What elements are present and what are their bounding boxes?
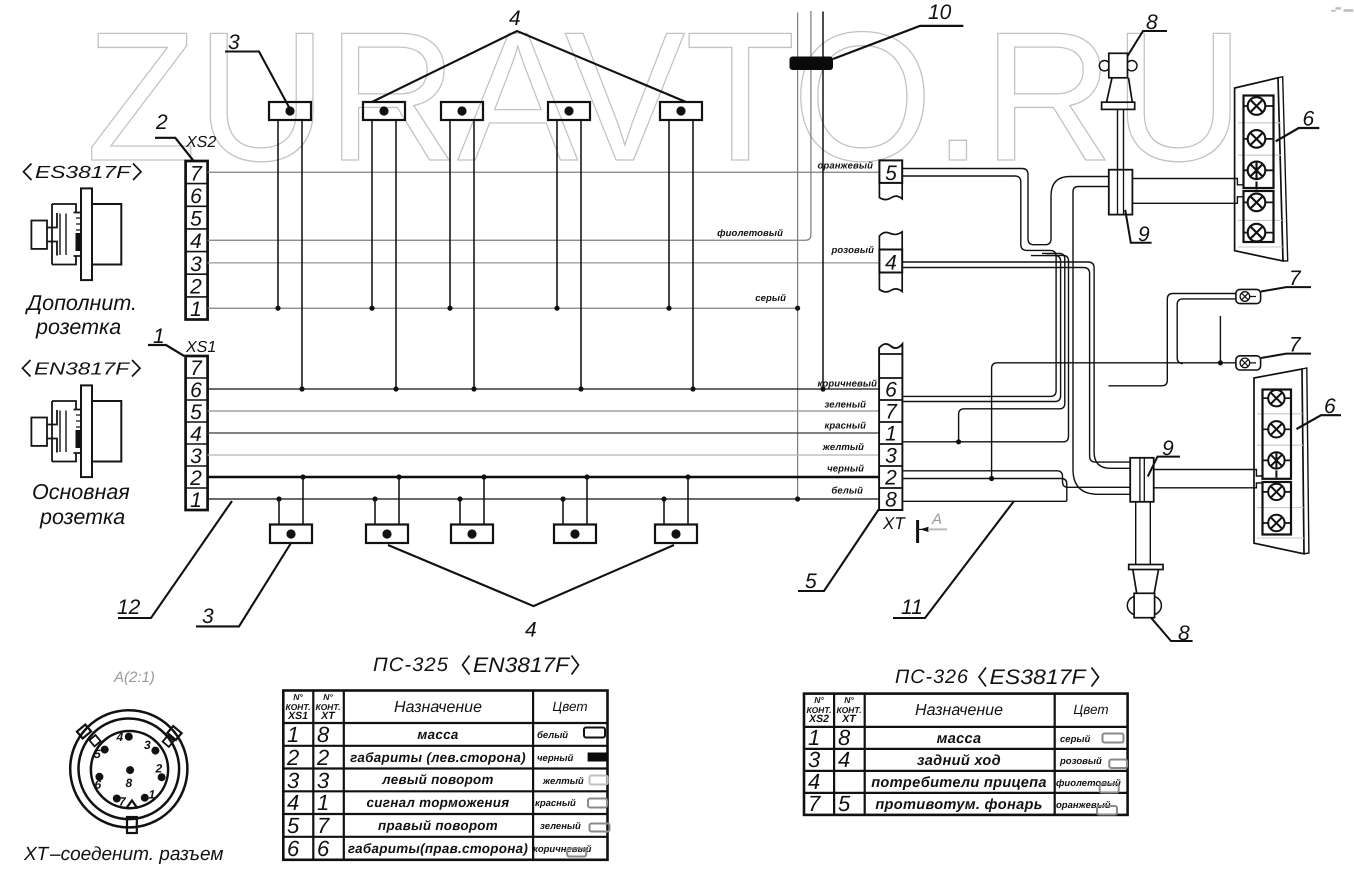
svg-text:левый поворот: левый поворот [381, 772, 493, 787]
svg-text:2: 2 [884, 467, 897, 490]
svg-text:Дополнит.: Дополнит. [25, 291, 137, 315]
leader 10 [833, 26, 963, 59]
break flag above [879, 232, 902, 250]
svg-text:5: 5 [94, 747, 101, 761]
connector 9 (bottom) [1130, 458, 1154, 502]
svg-text:белый: белый [537, 730, 568, 741]
wire stop-lamp ext up bundle [902, 255, 1068, 441]
svg-text:XT: XT [23, 844, 50, 865]
svg-text:XS1: XS1 [287, 710, 308, 722]
svg-text:коричневый: коричневый [818, 379, 878, 390]
watermark ZURAVTO.RU [86, 0, 1244, 199]
connector XT pin4 box [879, 232, 902, 292]
svg-text:2: 2 [189, 276, 202, 299]
svg-text:1: 1 [190, 489, 202, 512]
wire connector9 to top lamp cluster lower [1132, 197, 1243, 204]
svg-text:4: 4 [525, 619, 537, 642]
wire XS1-3 yellow row [208, 454, 880, 456]
wire [459, 499, 461, 525]
svg-text:противотум. фонарь: противотум. фонарь [875, 797, 1042, 813]
socket label (EN3817F) [23, 359, 141, 379]
wire ext to lower cable a [902, 471, 1130, 488]
shell tab upper-right [167, 726, 181, 740]
svg-text:желтый: желтый [822, 442, 864, 453]
svg-text:5: 5 [838, 791, 851, 816]
svg-text:А(2:1): А(2:1) [113, 669, 155, 686]
table ПС-325 [283, 691, 607, 860]
svg-text:9: 9 [1138, 223, 1150, 246]
wire XT4 pipe upper [903, 262, 1131, 468]
wire [449, 120, 451, 308]
svg-text:ES3817F: ES3817F [35, 162, 132, 182]
wire connector9 to lower cable [1073, 187, 1130, 495]
table ПС-325 title [373, 654, 579, 677]
svg-text:4: 4 [287, 790, 299, 815]
connector face [91, 731, 168, 808]
svg-text:серый: серый [1060, 734, 1090, 745]
wire [301, 120, 303, 389]
leader 9 (top) [1125, 210, 1151, 243]
face notch [126, 801, 138, 809]
wire [556, 120, 558, 308]
svg-text:5: 5 [805, 570, 817, 593]
junction dots [795, 306, 826, 502]
svg-text:N°: N° [844, 695, 854, 705]
svg-text:12: 12 [117, 596, 141, 619]
svg-text:2: 2 [155, 762, 163, 776]
svg-text:3: 3 [885, 445, 897, 468]
svg-text:Цвет: Цвет [1073, 702, 1108, 717]
svg-text:XT: XT [841, 713, 857, 725]
connector XT main block [879, 344, 902, 512]
lamp block B5 [655, 474, 697, 543]
svg-text:5: 5 [190, 401, 202, 424]
lamp 3 fog [1263, 452, 1292, 477]
harness wires right of XT [902, 169, 1262, 502]
lamp block B2 [366, 474, 408, 543]
svg-text:6: 6 [1324, 395, 1336, 418]
wire XS1-5 green row [208, 410, 880, 412]
section mark A [918, 511, 947, 543]
wire XT5 to connector 9 (S-bend) [903, 169, 1109, 245]
plug 8 (top) [1099, 53, 1137, 169]
wire upper connector 7 line a [1109, 294, 1236, 386]
svg-text:9: 9 [1162, 437, 1174, 460]
lamp block B4 [554, 474, 596, 543]
svg-text:потребители прицепа: потребители прицепа [871, 775, 1047, 791]
shell tab bottom [127, 817, 137, 833]
wire [371, 120, 373, 308]
wire [692, 120, 694, 389]
socket EN3817F (lower left) symbol [31, 385, 121, 477]
svg-text:6: 6 [1303, 108, 1315, 131]
wire black vertical bus [822, 12, 824, 390]
wire [302, 477, 304, 525]
wire connector9 to top lamp cluster upper [1132, 179, 1243, 185]
svg-text:правый поворот: правый поворот [378, 818, 498, 833]
svg-text:XT: XT [882, 514, 906, 533]
colour swatches table ПС-325 [567, 728, 609, 857]
svg-text:зеленый: зеленый [540, 821, 581, 832]
lamp 4 [1244, 194, 1274, 212]
wire lower connector9 to bottom cluster lower [1154, 483, 1263, 488]
wire [663, 499, 665, 525]
svg-text:3: 3 [202, 605, 214, 628]
connector 7 (lower) [1236, 356, 1261, 370]
svg-text:белый: белый [831, 486, 863, 497]
key square right [163, 736, 174, 747]
wire [483, 477, 485, 525]
svg-text:масса: масса [937, 731, 982, 747]
svg-text:3: 3 [144, 738, 151, 752]
svg-text:8: 8 [1178, 622, 1190, 645]
wire grey vertical bus [797, 13, 799, 500]
wire upper connector 7 line b [1177, 299, 1236, 364]
svg-text:Цвет: Цвет [552, 699, 587, 714]
svg-text:7: 7 [190, 163, 203, 186]
svg-text:фиолетовый: фиолетовый [717, 228, 783, 239]
leader 8 (bottom) [1151, 618, 1193, 641]
pin numbers of detail face [94, 730, 163, 809]
svg-text:1: 1 [885, 423, 897, 446]
svg-text:6: 6 [190, 185, 202, 208]
svg-text:–соеденит. разъем: –соеденит. разъем [49, 844, 223, 865]
connector XT pin5 box [879, 160, 902, 199]
svg-text:8: 8 [317, 722, 330, 747]
svg-text:красный: красный [824, 421, 866, 432]
svg-text:N°: N° [323, 692, 333, 702]
svg-text:8: 8 [885, 489, 897, 512]
svg-text:11: 11 [901, 596, 923, 619]
svg-text:4: 4 [509, 7, 521, 30]
corner marks [1331, 7, 1353, 12]
svg-text:3: 3 [190, 445, 202, 468]
svg-text:розетка: розетка [35, 315, 121, 339]
svg-text:2: 2 [155, 111, 168, 134]
leader 9 (bottom) [1148, 457, 1180, 477]
svg-text:1: 1 [149, 788, 156, 802]
svg-text:6: 6 [317, 836, 330, 861]
lamp symbols (bottom cluster) [1263, 390, 1292, 531]
svg-text:XS2: XS2 [808, 713, 829, 725]
svg-text:5: 5 [885, 162, 897, 185]
svg-text:сигнал торможения: сигнал торможения [367, 795, 510, 810]
lamp block T2 [363, 102, 405, 392]
svg-text:6: 6 [95, 778, 102, 792]
svg-text:Назначение: Назначение [394, 699, 482, 716]
svg-text:ПС-325: ПС-325 [373, 654, 449, 676]
plug 8 (bottom) [1127, 502, 1163, 618]
svg-text:4: 4 [838, 747, 850, 772]
lamp 3 fog [1244, 162, 1274, 190]
svg-text:7: 7 [808, 791, 821, 816]
wire XS1-4 red row [208, 432, 880, 434]
svg-text:ES3817F: ES3817F [990, 666, 1087, 689]
svg-text:1: 1 [317, 790, 329, 815]
svg-text:2: 2 [316, 745, 329, 770]
svg-text:4: 4 [190, 230, 202, 253]
svg-text:зеленый: зеленый [824, 400, 866, 411]
node stub [1219, 316, 1221, 363]
svg-text:8: 8 [1146, 11, 1158, 34]
svg-text:2: 2 [286, 745, 299, 770]
break flag below [879, 273, 902, 292]
table ПС-326 title [895, 666, 1099, 689]
wire ext to lower cable b [902, 479, 1066, 502]
lamp symbols (top cluster) [1244, 97, 1274, 241]
key square left [89, 735, 100, 746]
lamp cluster 6 (bottom right) [1254, 368, 1309, 554]
svg-text:7: 7 [885, 401, 898, 424]
wire to lower lamp connector 7 [992, 363, 1236, 479]
wire colour labels near XT [717, 161, 877, 497]
svg-text:N°: N° [814, 695, 824, 705]
svg-text:черный: черный [827, 464, 864, 475]
lamp 1 [1263, 390, 1292, 406]
svg-text:8: 8 [126, 776, 133, 790]
svg-text:1: 1 [287, 722, 299, 747]
wire lower connector9 to bottom cluster upper [1154, 470, 1263, 477]
svg-text:габариты (лев.сторона): габариты (лев.сторона) [350, 750, 526, 765]
socket ES3817F (upper left) symbol [31, 188, 121, 280]
wire [668, 120, 670, 308]
svg-text:XT: XT [320, 710, 336, 722]
lamp block T3 [441, 102, 483, 392]
svg-text:черный: черный [537, 753, 573, 764]
svg-text:масса: масса [417, 727, 458, 742]
lamp block T1 [269, 102, 311, 392]
wire white ext [902, 500, 1066, 502]
junction dot [1218, 360, 1223, 365]
svg-text:розовый: розовый [1059, 756, 1102, 767]
lamp cluster 6 (top right) [1235, 77, 1288, 261]
lamp 4 [1263, 484, 1292, 500]
svg-text:XS1: XS1 [185, 339, 216, 356]
svg-text:габариты(прав.сторона): габариты(прав.сторона) [348, 841, 528, 856]
svg-text:7: 7 [190, 357, 203, 380]
connector 9 (top) [1109, 170, 1133, 215]
svg-text:N°: N° [293, 692, 303, 702]
wire red branch up bundle [959, 253, 1065, 441]
lamp block B1 [270, 474, 312, 543]
top clearance lamps (5 blocks) [269, 102, 702, 392]
lamp block T4 [548, 102, 590, 392]
svg-text:задний ход: задний ход [917, 753, 1001, 769]
leader 8 (top) [1128, 31, 1168, 56]
connector block XS1 [186, 356, 208, 510]
wire XS1-1 white row [208, 498, 880, 500]
svg-text:XS2: XS2 [185, 134, 216, 151]
break flag below [879, 183, 902, 200]
wire XS2-3 pink row [208, 262, 880, 264]
svg-text:7: 7 [1289, 334, 1302, 357]
svg-text:розовый: розовый [831, 245, 875, 256]
lamp 5 [1263, 515, 1292, 531]
wire [562, 499, 564, 525]
svg-text:6: 6 [287, 836, 300, 861]
wire XS1-2 black row [208, 476, 880, 478]
svg-text:7: 7 [1289, 267, 1302, 290]
wire [473, 120, 475, 389]
lamp 5 [1244, 224, 1274, 242]
svg-text:EN3817F: EN3817F [473, 654, 570, 677]
leader 7 (upper) [1261, 287, 1311, 291]
svg-text:6: 6 [190, 379, 202, 402]
wire XT4 pipe lower [903, 268, 1131, 463]
wire [395, 120, 397, 389]
leader 6 (top cluster) [1276, 128, 1320, 141]
lamp block T5 [660, 102, 702, 392]
wire XS2-1 grey row [208, 307, 798, 309]
svg-text:4: 4 [116, 730, 124, 744]
wire XS1-6 brown row [208, 388, 880, 390]
pins of detail face [95, 733, 165, 803]
wire [277, 120, 279, 308]
svg-text:4: 4 [885, 252, 897, 275]
svg-text:5: 5 [287, 813, 300, 838]
wire [687, 477, 689, 525]
svg-text:3: 3 [190, 253, 202, 276]
svg-text:розетка: розетка [39, 505, 125, 529]
bottom clearance lamps (5 blocks) [270, 474, 697, 543]
svg-text:5: 5 [190, 208, 202, 231]
svg-text:4: 4 [190, 423, 202, 446]
leader 7 (lower) [1261, 354, 1311, 358]
svg-text:Основная: Основная [32, 480, 130, 504]
svg-text:A: A [931, 511, 942, 528]
connector block XS2 [186, 161, 208, 320]
svg-text:серый: серый [755, 293, 786, 304]
lamp block B3 [451, 474, 493, 543]
component 10 black sleeve [790, 57, 834, 71]
socket label (ES3817F) [24, 162, 142, 182]
wire [398, 477, 400, 525]
svg-text:1: 1 [190, 298, 202, 321]
svg-text:7: 7 [119, 795, 127, 809]
connector 7 (upper) [1236, 289, 1261, 303]
svg-text:6: 6 [885, 379, 897, 402]
wire XS2-4 violet row [208, 11, 811, 240]
svg-text:желтый: желтый [542, 776, 584, 787]
wire XT5 lower line to XT6 via bundle [902, 176, 1056, 396]
wire XT6 lower branch up bundle [902, 256, 1060, 402]
svg-text:ZURAVTO.RU: ZURAVTO.RU [86, 0, 1244, 199]
svg-text:красный: красный [535, 798, 576, 809]
leader 6 (bottom cluster) [1297, 415, 1342, 429]
svg-text:7: 7 [317, 813, 330, 838]
lamp 1 [1244, 97, 1274, 115]
wire XS2-7 orange row [208, 171, 880, 173]
wire [586, 477, 588, 525]
wire [580, 120, 582, 389]
shell tab upper-left [77, 725, 91, 739]
svg-text:оранжевый: оранжевый [818, 161, 874, 172]
lamp 2 [1244, 130, 1274, 148]
svg-text:EN3817F: EN3817F [34, 359, 131, 379]
table ПС-326 [804, 694, 1128, 815]
svg-text:2: 2 [189, 467, 202, 490]
svg-text:Назначение: Назначение [915, 702, 1003, 719]
svg-text:ПС-326: ПС-326 [895, 666, 969, 688]
svg-text:10: 10 [928, 1, 952, 24]
wire [278, 499, 280, 525]
connector shell outer [70, 710, 187, 827]
connector shell mid ring [79, 719, 180, 820]
lamp 2 [1263, 421, 1292, 437]
wire [374, 499, 376, 525]
colour swatches table ПС-326 [1097, 734, 1127, 815]
